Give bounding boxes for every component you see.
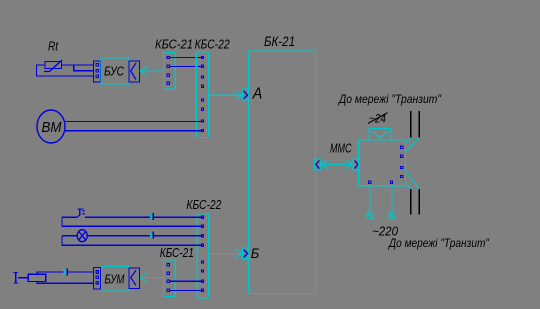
svg-text:БУС: БУС	[104, 64, 124, 79]
svg-text:До мережі "Транзит": До мережі "Транзит"	[387, 238, 490, 250]
svg-text:КБС-22: КБС-22	[186, 197, 222, 212]
svg-text:А: А	[252, 86, 262, 103]
wire ММС to transit line (top left)	[405, 138, 410, 144]
lamp HL	[77, 230, 87, 242]
wire БК-21 to ММС (double arrow)	[321, 160, 353, 169]
wire arrow КБС-21 to БУМ	[140, 273, 164, 283]
motor ВМ	[37, 110, 65, 143]
connector block of БУС (3 pins)	[94, 61, 101, 82]
wire lamp loop return	[62, 236, 203, 245]
svg-text:Б: Б	[251, 245, 259, 261]
svg-text:ММС: ММС	[330, 140, 352, 155]
input arrow box of БУМ	[129, 268, 140, 289]
wire КБС-21 to КБС-22 pin2	[170, 65, 203, 67]
plug symbol on top of ММС	[369, 129, 391, 141]
block БУМ	[102, 267, 130, 292]
svg-text:Rt: Rt	[48, 40, 58, 54]
wire ММС to transit line (bottom right)	[404, 170, 419, 189]
wire arrow КБС-21 to БУС	[140, 66, 164, 76]
wire ММС to ~220 socket (right)	[391, 186, 393, 213]
svg-text:КБС-21: КБС-21	[160, 245, 194, 260]
contact pair on electromagnet wire	[63, 270, 65, 275]
wire КБС-21 to КБС-22 pin1	[170, 57, 203, 59]
wire КБС-21 to КБС-22 lower pin4	[170, 289, 203, 291]
terminal on БК-21 right edge	[315, 159, 321, 170]
connector КБС-22 (lower, 8 pins)	[197, 214, 208, 298]
switch SB	[76, 209, 83, 218]
socket symbol left	[367, 213, 374, 220]
wire Rt top lead	[62, 64, 94, 66]
wire lamp loop top	[62, 235, 150, 237]
svg-text:КБС-22: КБС-22	[195, 37, 231, 52]
transit network lines (bottom pair)	[411, 189, 419, 215]
electromagnet YA coil	[28, 274, 45, 281]
terminal Б on БК-21	[242, 248, 248, 259]
svg-text:~220: ~220	[372, 225, 398, 239]
svg-text:БУМ: БУМ	[105, 272, 125, 287]
wire КБС-21 to КБС-22 lower pin3	[170, 280, 203, 282]
wire switch loop return	[62, 217, 203, 226]
svg-text:КБС-21: КБС-21	[155, 37, 193, 52]
wire ММС to transit line (top right)	[405, 138, 419, 152]
block ММС	[359, 140, 406, 186]
input arrow box of БУС	[129, 61, 140, 82]
wire ММС to ~220 socket (left)	[369, 186, 371, 213]
electromagnet YA terminal	[14, 273, 19, 283]
connector КБС-21 (lower)	[163, 260, 175, 297]
socket symbol right	[389, 213, 396, 220]
pins on ММС bottom edge	[369, 181, 393, 183]
terminal А on БК-21	[242, 89, 248, 100]
wire electromagnet bottom lead	[37, 281, 93, 283]
connector КБС-22 (upper, 8 pins)	[196, 52, 208, 138]
svg-text:БК-21: БК-21	[264, 34, 295, 49]
wire terminal to electromagnet	[18, 277, 28, 279]
wire node Б (КБС-22 to БК-21)	[208, 249, 242, 258]
connector КБС-21 (upper)	[163, 53, 175, 90]
connector block of БУМ (3 pins)	[94, 268, 101, 290]
terminal on ММС left edge	[353, 159, 359, 170]
block БК-21	[249, 51, 316, 294]
wire ВМ lead 1	[64, 121, 202, 123]
wire node А (КБС-22 to БК-21)	[208, 91, 242, 100]
pins on ММС right edge	[401, 146, 403, 178]
svg-text:ВМ: ВМ	[42, 119, 62, 136]
thermistor Rt	[44, 60, 62, 72]
contact pair on switch wire	[149, 214, 151, 219]
wire Rt bottom lead	[36, 65, 93, 76]
wire Rt middle tap	[74, 65, 94, 71]
wire ММС to transit line (bottom left)	[405, 182, 411, 189]
wire electromagnet top lead	[37, 272, 64, 274]
wire switch loop top	[62, 216, 150, 218]
contact pair on lamp wire	[149, 233, 151, 238]
svg-text:До мережі "Транзит": До мережі "Транзит"	[337, 94, 442, 106]
wire ВМ lead 2	[65, 130, 203, 132]
transit network lines (top pair)	[411, 111, 420, 138]
block БУС	[101, 58, 129, 84]
